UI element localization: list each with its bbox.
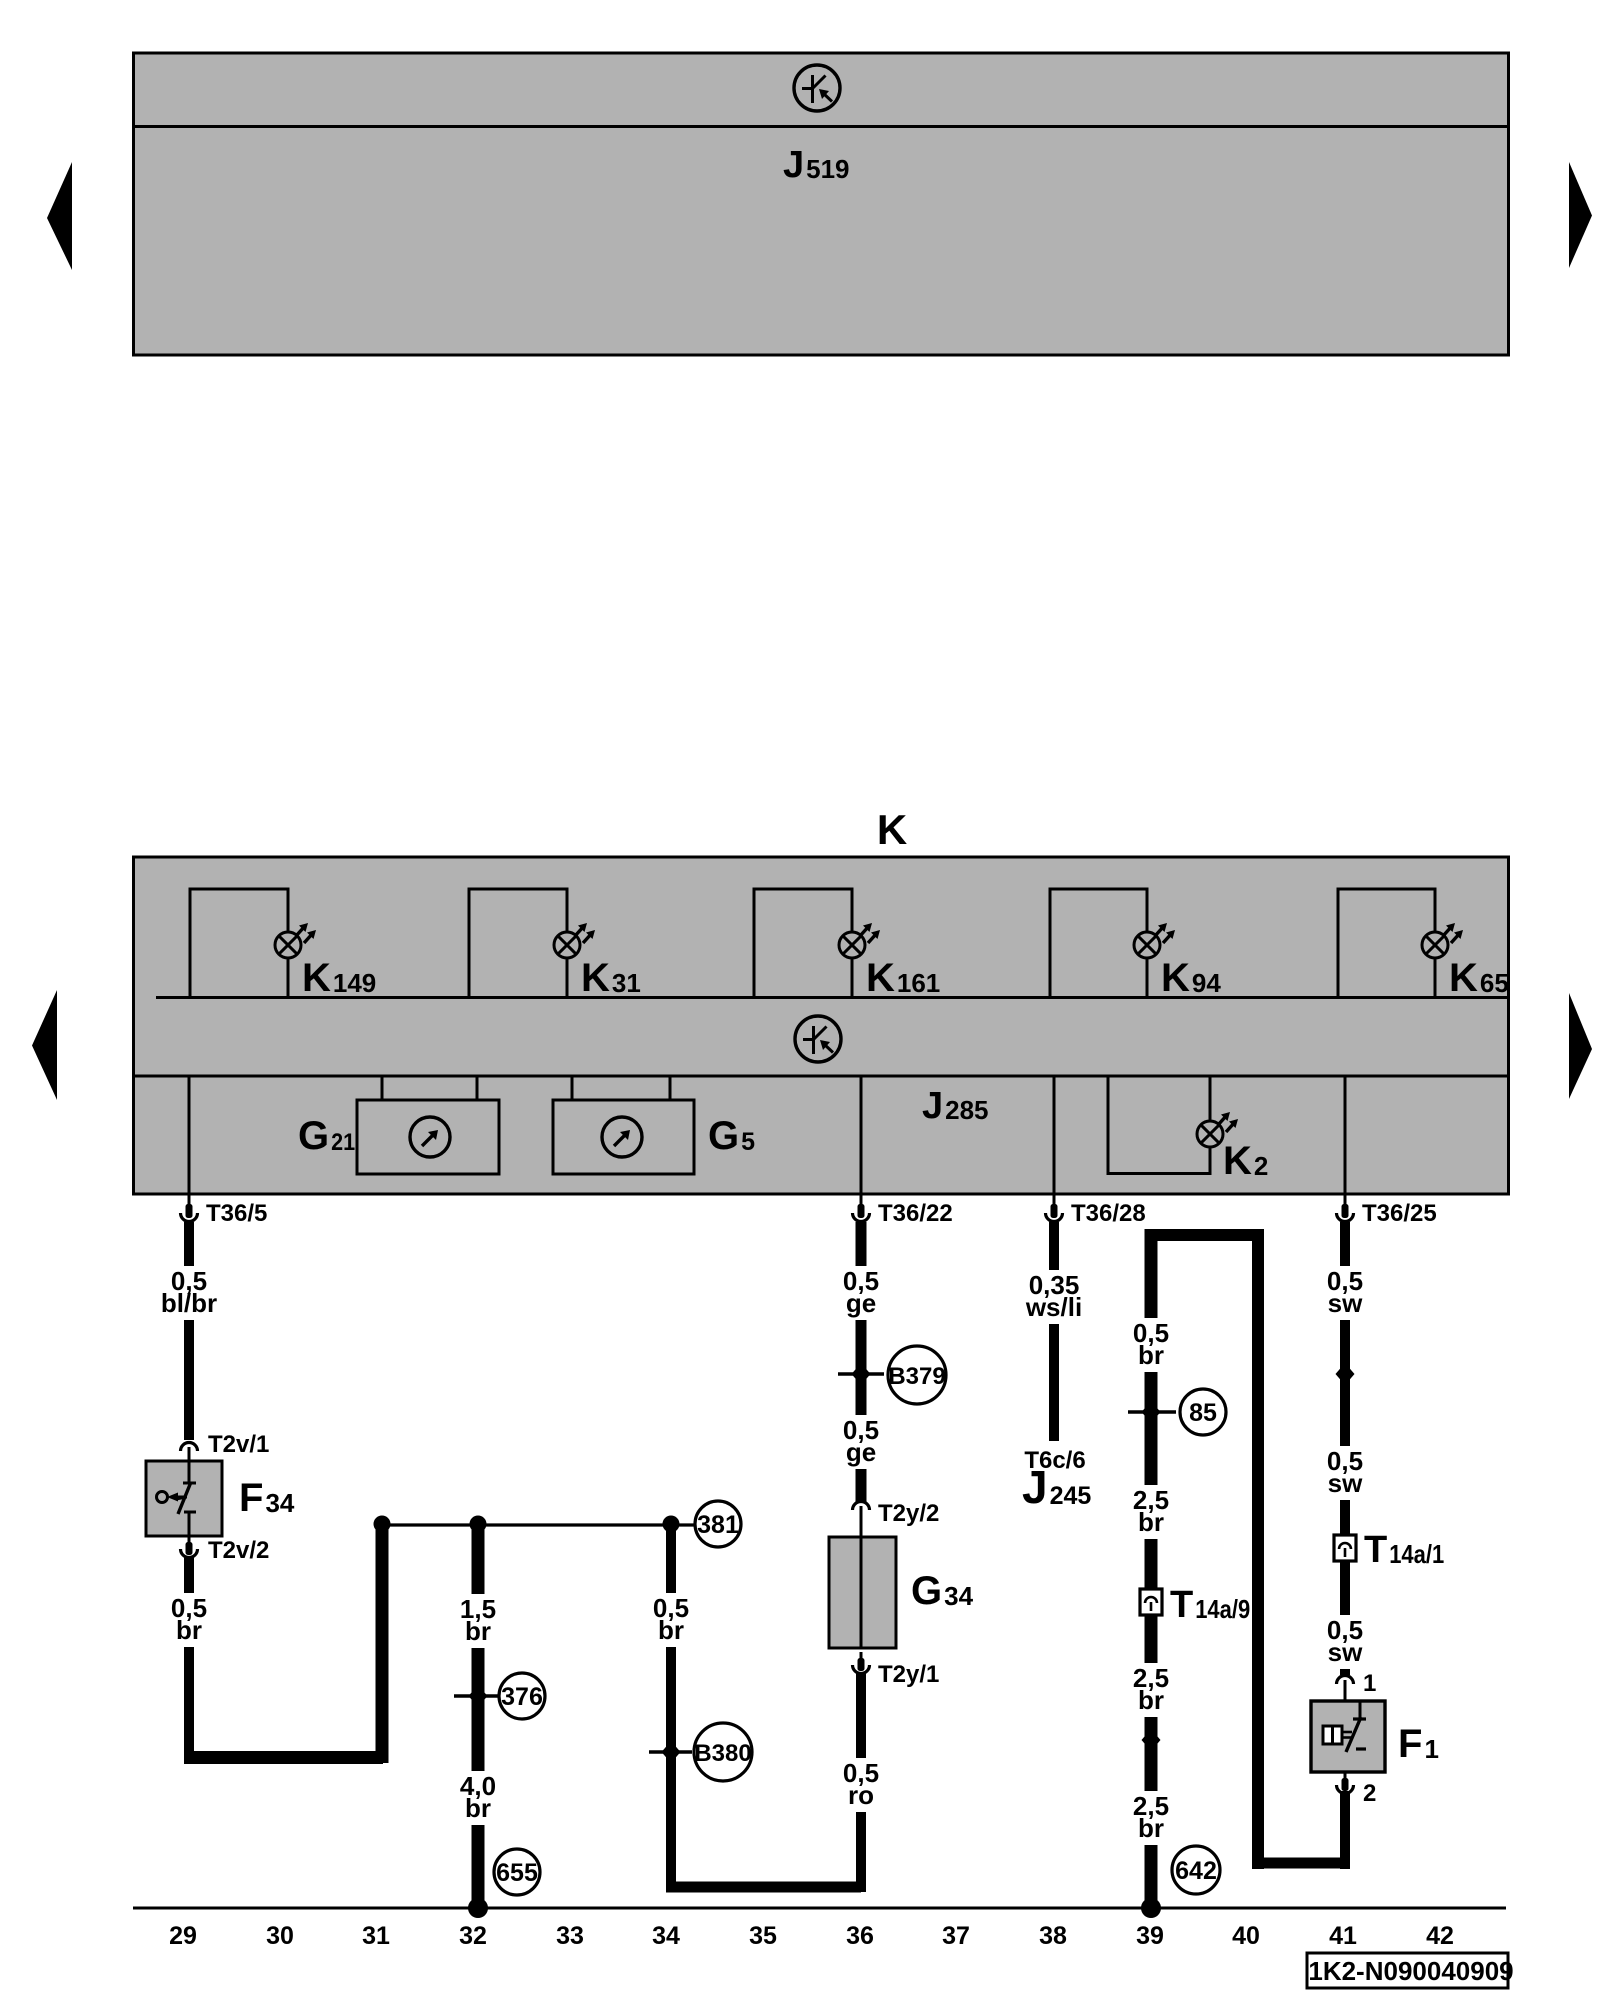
svg-text:K: K [1161, 956, 1190, 1000]
svg-text:29: 29 [169, 1922, 197, 1950]
pin T2v/2 [181, 1536, 198, 1558]
svg-text:K: K [302, 956, 331, 1000]
tick at node 376 [454, 1694, 499, 1697]
node 642 [1172, 1846, 1220, 1894]
svg-text:1: 1 [1363, 1670, 1376, 1697]
svg-text:sw: sw [1328, 1468, 1363, 1498]
svg-text:34: 34 [944, 1581, 973, 1611]
label J285 [922, 1085, 989, 1127]
diagram id box [1307, 1953, 1514, 1988]
pin T36/22 [853, 1194, 870, 1222]
svg-text:14a/9: 14a/9 [1195, 1594, 1250, 1624]
svg-text:ro: ro [848, 1780, 874, 1810]
switch F1 box [1311, 1701, 1385, 1772]
right continuation arrow (top) [1569, 162, 1592, 268]
lamp loop K94 [1050, 889, 1147, 998]
svg-text:376: 376 [501, 1683, 543, 1711]
svg-text:J: J [1022, 1461, 1048, 1513]
wire corner track39 to track40 [1145, 1229, 1158, 1241]
svg-text:1K2-N090040909: 1K2-N090040909 [1308, 1956, 1513, 1986]
svg-text:br: br [658, 1615, 684, 1645]
svg-text:br: br [1138, 1340, 1164, 1370]
label G21 [298, 1114, 355, 1158]
svg-text:K: K [866, 956, 895, 1000]
wire label 0,5 br [643, 1593, 699, 1647]
wire 0,5 bl/br from T36/5 [184, 1222, 194, 1440]
node 655 [494, 1849, 540, 1895]
svg-text:K: K [877, 806, 907, 853]
svg-text:655: 655 [496, 1859, 538, 1887]
control unit box J519 [134, 53, 1509, 355]
junction B379 [852, 1363, 871, 1385]
svg-text:sw: sw [1328, 1637, 1363, 1667]
wire label 0,5 sw (2) [1317, 1446, 1373, 1500]
wire label 1,5 br [450, 1594, 506, 1648]
svg-text:40: 40 [1232, 1922, 1260, 1950]
connector T14a/1 [1334, 1535, 1356, 1561]
label K65 [1449, 956, 1509, 1000]
long wire track40 down [1252, 1235, 1264, 1869]
svg-text:1: 1 [1424, 1734, 1438, 1764]
svg-text:br: br [465, 1616, 491, 1646]
node B379 [888, 1346, 946, 1404]
svg-text:T36/28: T36/28 [1071, 1200, 1146, 1227]
svg-text:94: 94 [1192, 968, 1221, 998]
label T14a/1 [1364, 1529, 1444, 1571]
svg-text:39: 39 [1136, 1922, 1164, 1950]
wire label 0,5 sw (1) [1317, 1266, 1373, 1320]
control unit symbol top [794, 65, 840, 111]
svg-text:T2v/2: T2v/2 [208, 1537, 269, 1564]
lamp loop K161 [754, 889, 852, 998]
svg-text:34: 34 [265, 1488, 294, 1518]
pin T2y/2 [853, 1502, 870, 1538]
svg-text:G: G [911, 1569, 942, 1613]
svg-text:149: 149 [333, 968, 376, 998]
internal wire to pin at x=1054 [1053, 1076, 1056, 1194]
svg-text:36: 36 [846, 1922, 874, 1950]
svg-text:ge: ge [846, 1437, 876, 1467]
pin T2v/1 [181, 1443, 198, 1462]
left continuation arrow (top) [47, 162, 72, 270]
ground dot track 32 [468, 1898, 488, 1918]
svg-text:T36/22: T36/22 [878, 1200, 953, 1227]
label K161 [866, 956, 940, 1000]
right continuation arrow (middle) [1569, 993, 1592, 1099]
svg-text:37: 37 [942, 1922, 970, 1950]
svg-text:245: 245 [1050, 1482, 1092, 1510]
wire label 2,5 br (1) [1123, 1485, 1179, 1539]
svg-text:31: 31 [612, 968, 641, 998]
svg-text:31: 31 [362, 1922, 390, 1950]
wire label 2,5 br (3) [1123, 1791, 1179, 1845]
internal wire to pin at x=861 [860, 1076, 863, 1194]
label K149 [302, 956, 376, 1000]
svg-text:T: T [1170, 1584, 1193, 1626]
svg-text:285: 285 [945, 1095, 988, 1125]
tick at node B380 [649, 1750, 692, 1753]
pin T36/5 [181, 1194, 198, 1222]
svg-text:F: F [1398, 1722, 1422, 1766]
svg-text:F: F [239, 1476, 263, 1520]
junction splice [1142, 1729, 1161, 1751]
track numbers [169, 1922, 1454, 1950]
svg-text:14a/1: 14a/1 [1389, 1539, 1444, 1569]
wire 0,5 ro [856, 1672, 866, 1892]
wire br track 39 [1145, 1235, 1158, 1908]
wire 0,35 ws/li to J245 [1049, 1222, 1059, 1441]
wire label 0,5 sw (3) [1317, 1615, 1373, 1669]
svg-text:5: 5 [741, 1128, 755, 1156]
label K94 [1161, 956, 1221, 1000]
sender G34 box [829, 1537, 896, 1648]
instrument cluster box K [134, 857, 1509, 1194]
label K31 [581, 956, 641, 1000]
svg-text:B379: B379 [888, 1363, 945, 1390]
svg-text:bl/br: bl/br [161, 1288, 217, 1318]
lamp loop K31 [469, 889, 567, 998]
ground dot track 39 [1141, 1898, 1161, 1918]
wire label 2,5 br (2) [1123, 1663, 1179, 1717]
gauge G5 connector [572, 1076, 670, 1100]
gauge G21 connector [382, 1076, 477, 1100]
label G34 [911, 1569, 974, 1613]
gauge G21 box [357, 1100, 499, 1174]
left continuation arrow (middle) [32, 990, 57, 1100]
label J245 [1022, 1461, 1091, 1513]
svg-text:519: 519 [806, 154, 849, 184]
svg-text:35: 35 [749, 1922, 777, 1950]
gauge G5 box [553, 1100, 694, 1174]
lamp loop K65 [1338, 889, 1435, 998]
svg-text:ge: ge [846, 1288, 876, 1318]
wire label 0,5 ro [833, 1758, 889, 1812]
svg-text:J: J [783, 144, 804, 186]
lamp symbol K94 [1134, 923, 1175, 958]
divider line (J285 section) [134, 1075, 1509, 1078]
svg-text:2: 2 [1363, 1780, 1376, 1807]
internal wire to pin at x=1345 [1344, 1076, 1347, 1194]
J519 box divider line [134, 125, 1509, 128]
svg-text:42: 42 [1426, 1922, 1454, 1950]
wire 0,5 br from T2v/2 [184, 1556, 194, 1763]
label T14a/9 [1170, 1584, 1250, 1626]
svg-text:T2y/1: T2y/1 [878, 1661, 939, 1688]
junction dot [374, 1516, 391, 1533]
svg-text:2: 2 [1254, 1151, 1268, 1181]
tick at node B379 [838, 1372, 884, 1375]
node 381 [695, 1501, 741, 1547]
G34 internal wire [860, 1516, 863, 1648]
node 376 [499, 1673, 545, 1719]
wire 1,5/4,0 br to ground [472, 1525, 485, 1908]
wire label 0,5 br (39) [1123, 1318, 1179, 1372]
svg-text:sw: sw [1328, 1288, 1363, 1318]
wire 0,5 ge from T36/22 [856, 1222, 867, 1503]
lamp symbol K161 [839, 923, 880, 958]
node 85 [1180, 1389, 1226, 1435]
lamp symbol K31 [554, 923, 595, 958]
junction splice sw [1336, 1363, 1355, 1385]
svg-text:br: br [1138, 1685, 1164, 1715]
lamp loop K149 [190, 889, 288, 998]
svg-text:381: 381 [697, 1511, 739, 1539]
node line to 381 [382, 1523, 694, 1526]
junction B380 [662, 1741, 681, 1763]
svg-text:G: G [298, 1114, 329, 1158]
svg-text:br: br [465, 1793, 491, 1823]
svg-text:br: br [176, 1615, 202, 1645]
junction 85 [1142, 1401, 1161, 1423]
label J519 [783, 144, 850, 186]
pin T2y/1 [853, 1652, 870, 1674]
svg-text:41: 41 [1329, 1922, 1357, 1950]
svg-text:32: 32 [459, 1922, 487, 1950]
svg-text:br: br [1138, 1507, 1164, 1537]
lamp bus line [156, 996, 1508, 999]
control unit symbol J285 [795, 1016, 841, 1062]
svg-text:38: 38 [1039, 1922, 1067, 1950]
svg-text:T36/25: T36/25 [1362, 1200, 1437, 1227]
connector T14a/9 [1140, 1589, 1162, 1615]
lamp symbol K65 [1422, 923, 1463, 958]
junction dot [663, 1516, 680, 1533]
pin T36/25 [1337, 1194, 1354, 1222]
svg-text:T2y/2: T2y/2 [878, 1500, 939, 1527]
svg-text:T2v/1: T2v/1 [208, 1431, 269, 1458]
svg-text:34: 34 [652, 1922, 680, 1950]
tick at node 85 [1128, 1410, 1176, 1413]
wire bottom U to G34 branch [666, 1882, 861, 1893]
switch F1 symbol [1323, 1701, 1366, 1752]
wire 0,5 br via B380 [666, 1525, 676, 1892]
wire corner to node 381 line [184, 1751, 383, 1764]
label F1 [1398, 1722, 1439, 1766]
gauge symbol G5 [602, 1117, 642, 1157]
wire label 4,0 br [450, 1771, 506, 1825]
wire label 0,5 br [161, 1593, 217, 1647]
svg-text:br: br [1138, 1813, 1164, 1843]
pin F1 pin 1 [1337, 1676, 1354, 1702]
internal wire to pin at x=189 [188, 1076, 191, 1194]
wire bottom U to F1 [1252, 1858, 1345, 1869]
wire label 0,5 ge [833, 1266, 889, 1320]
node B380 [694, 1723, 752, 1781]
wire 0,5 sw from T36/25 [1340, 1222, 1350, 1675]
gauge symbol G21 [410, 1117, 450, 1157]
svg-text:T36/5: T36/5 [206, 1200, 267, 1227]
switch F34 box [146, 1461, 222, 1536]
wire from F1 pin 2 [1340, 1791, 1350, 1869]
wire label 0,5 bl/br [158, 1266, 220, 1320]
wire label 0,35 ws/li [1021, 1270, 1087, 1324]
svg-text:161: 161 [897, 968, 940, 998]
ground rail [133, 1907, 1506, 1910]
svg-text:G: G [708, 1114, 739, 1158]
lamp symbol K149 [275, 923, 316, 958]
svg-text:21: 21 [331, 1129, 355, 1156]
lamp symbol K2 [1197, 1112, 1238, 1147]
svg-text:85: 85 [1189, 1399, 1217, 1427]
label K2 [1223, 1139, 1268, 1183]
svg-text:65: 65 [1480, 968, 1509, 998]
lamp loop K2 [1108, 1076, 1210, 1174]
svg-text:30: 30 [266, 1922, 294, 1950]
svg-text:ws/li: ws/li [1025, 1292, 1082, 1322]
wire label 0,5 ge (2) [833, 1415, 889, 1469]
svg-text:J: J [922, 1085, 943, 1127]
svg-text:33: 33 [556, 1922, 584, 1950]
svg-text:B380: B380 [694, 1740, 751, 1767]
switch F34 symbol [157, 1461, 197, 1536]
svg-text:K: K [1223, 1139, 1252, 1183]
svg-text:T: T [1364, 1529, 1387, 1571]
junction dot [470, 1516, 487, 1533]
svg-text:642: 642 [1175, 1857, 1217, 1885]
pin T36/28 [1046, 1194, 1063, 1222]
label F34 [239, 1476, 295, 1520]
label G5 [708, 1114, 755, 1158]
junction 376 [469, 1685, 488, 1707]
pin F1 pin 2 [1337, 1772, 1354, 1794]
svg-text:K: K [581, 956, 610, 1000]
svg-text:K: K [1449, 956, 1478, 1000]
